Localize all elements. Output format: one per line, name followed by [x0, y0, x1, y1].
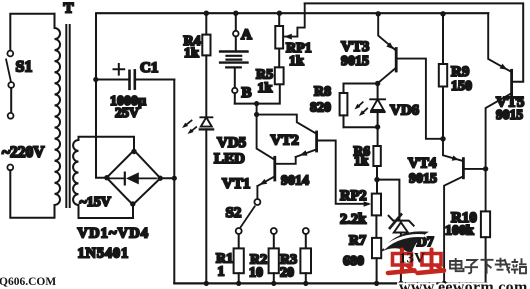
svg-text:~220V: ~220V — [2, 144, 45, 161]
svg-text:LED: LED — [214, 151, 245, 167]
node VD5 line bottom junction — [204, 281, 209, 286]
glyph zai — [495, 258, 511, 274]
svg-text:VT4: VT4 — [408, 155, 437, 171]
wire secondary top to bridge — [79, 137, 135, 150]
potentiometer RP1 — [275, 3, 304, 48]
svg-text:R9: R9 — [451, 64, 469, 80]
glyph dian — [450, 258, 464, 271]
transistor VT5 — [483, 13, 512, 211]
svg-text:VT3: VT3 — [341, 39, 369, 55]
svg-text:820: 820 — [310, 100, 331, 115]
svg-text:25V: 25V — [115, 106, 139, 121]
wire upper rail RP1 wiper to VT5 base — [305, 3, 524, 81]
svg-text:2.2k: 2.2k — [340, 211, 367, 227]
svg-text:VT2: VT2 — [271, 132, 299, 148]
svg-text:S1: S1 — [16, 59, 33, 76]
LED VD5 — [182, 117, 213, 283]
resistor R9 — [439, 11, 447, 141]
resistor R1 — [234, 228, 244, 286]
resistor R7 — [372, 215, 381, 286]
svg-text:VD5: VD5 — [217, 135, 246, 151]
capacitor C1 — [96, 64, 174, 89]
node B-line junction — [254, 101, 259, 106]
wire left vertical from top rail to bridge left vertex — [96, 13, 107, 178]
node negative rail junction — [172, 176, 177, 181]
svg-text:20: 20 — [280, 265, 294, 280]
svg-text:VT1: VT1 — [222, 176, 250, 192]
svg-text:Q606.COM: Q606.COM — [0, 276, 56, 288]
svg-text:R8: R8 — [314, 84, 331, 99]
svg-text:100k: 100k — [445, 224, 474, 239]
zener diode VD7 — [389, 216, 414, 286]
transformer T primary winding — [55, 14, 61, 205]
svg-text:T: T — [64, 1, 74, 17]
svg-text:150: 150 — [451, 79, 472, 94]
svg-text:1k: 1k — [354, 153, 369, 168]
AC input terminal upper — [8, 113, 14, 119]
svg-text:VD6: VD6 — [390, 102, 420, 118]
svg-text:13V: 13V — [399, 251, 425, 267]
resistor R6 — [373, 146, 380, 194]
svg-text:9015: 9015 — [409, 171, 437, 186]
svg-text:RP2: RP2 — [340, 188, 367, 204]
AC input terminal lower — [7, 165, 13, 171]
node C1 left junction — [93, 77, 98, 82]
svg-text:1: 1 — [218, 264, 225, 279]
switch S2 — [241, 199, 261, 227]
glyph zi — [465, 260, 479, 273]
svg-text:1k: 1k — [289, 54, 304, 69]
watermark eeworm swoosh logo — [380, 214, 429, 255]
svg-text:B: B — [242, 85, 252, 101]
resistor R2 — [269, 228, 279, 286]
wire bridge right vertex to negative rail — [160, 177, 174, 179]
potentiometer RP2 — [364, 194, 381, 216]
wire bottom of 220V loop — [10, 170, 54, 218]
glyph zhan — [511, 258, 527, 274]
svg-text:9014: 9014 — [281, 173, 309, 188]
resistor R5 — [275, 49, 284, 85]
transistor VT3 — [376, 11, 444, 139]
watermark www.eeworm.com — [399, 279, 528, 289]
svg-text:1N5401: 1N5401 — [78, 246, 130, 262]
svg-text:C1: C1 — [140, 60, 158, 76]
watermark red chongchong character 1 — [388, 250, 415, 274]
svg-text:9015: 9015 — [496, 107, 523, 122]
transformer T secondary winding — [73, 140, 78, 205]
switch S1 — [6, 14, 54, 113]
resistor R8 — [340, 84, 375, 128]
svg-text:www.eeworm.com: www.eeworm.com — [399, 279, 528, 289]
node R6 top junction — [375, 124, 380, 129]
svg-text:680: 680 — [343, 254, 364, 269]
wire secondary bottom to bridge — [79, 205, 134, 218]
photodiode VD6 — [355, 84, 386, 147]
resistor R10 — [481, 211, 490, 283]
node VT3 collector junction — [375, 81, 380, 86]
transistor VT2 — [254, 104, 368, 204]
transistor VT4 — [442, 139, 486, 286]
battery A-B — [220, 11, 247, 104]
transistor VT1 — [257, 115, 296, 200]
svg-text:A: A — [241, 27, 252, 43]
svg-text:~15V: ~15V — [80, 195, 111, 210]
svg-text:1k: 1k — [258, 81, 273, 96]
watermark text dianzi xiazai zhan — [449, 258, 530, 276]
svg-text:1k: 1k — [184, 46, 199, 61]
wire bottom rail — [174, 282, 486, 284]
wire top rail — [97, 12, 488, 14]
wire node B to R5 bottom — [235, 84, 280, 103]
svg-text:VD1~VD4: VD1~VD4 — [78, 226, 150, 242]
wire R6 bottom to zener VD7 — [377, 180, 399, 220]
bridge rectifier VD1~VD4 — [104, 149, 163, 207]
node R6 bottom junction — [374, 177, 379, 182]
resistor R3 — [300, 228, 311, 286]
resistor R4 — [202, 11, 210, 118]
svg-text:10: 10 — [249, 265, 263, 280]
glyph xia — [481, 260, 494, 274]
transformer T core — [66, 25, 69, 207]
watermark red chongchong character 2 — [418, 250, 445, 274]
wire negative rail vertical — [173, 80, 175, 284]
svg-text:9015: 9015 — [341, 54, 369, 69]
svg-text:S2: S2 — [226, 205, 242, 221]
svg-text:R7: R7 — [349, 233, 366, 248]
